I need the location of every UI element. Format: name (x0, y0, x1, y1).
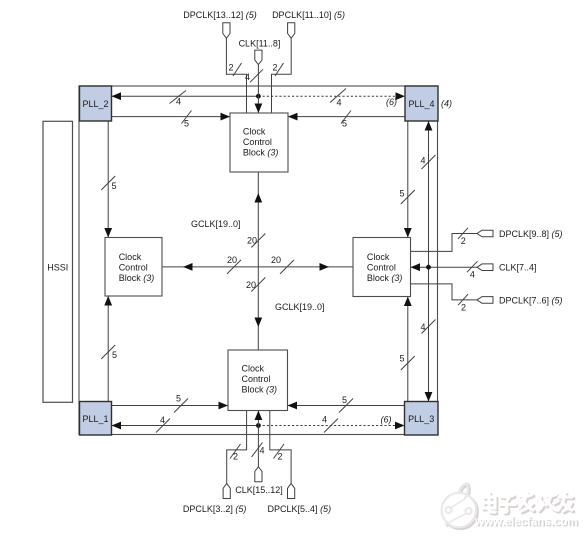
slash 4 (250, 69, 263, 82)
clock control block top (230, 113, 288, 172)
slash 2 (274, 444, 285, 459)
slash 4 bottom-dotted (324, 419, 338, 433)
watermark text elecfans chinese (483, 493, 574, 514)
svg-text:5: 5 (176, 394, 181, 404)
wire: PLL_1 to bottom CCB (112, 405, 229, 407)
svg-text:DPCLK[13..12] (5): DPCLK[13..12] (5) (183, 10, 257, 20)
wire: PLL_1 up to left CCB (107, 296, 109, 402)
svg-text:PLL_4: PLL_4 (408, 99, 434, 109)
svg-text:CLK[15..12]: CLK[15..12] (235, 485, 283, 495)
arrowhead into bottom CCB right (288, 402, 298, 410)
svg-text:5: 5 (112, 181, 117, 191)
svg-text:5: 5 (342, 119, 347, 129)
wire: PLL_4 down to right CCB (407, 121, 409, 238)
pin CLK[15..12] (235, 467, 283, 496)
svg-text:2: 2 (229, 63, 234, 73)
svg-text:Control: Control (367, 262, 396, 272)
PLL_1 block (80, 402, 112, 436)
pin DPCLK[7..6] (477, 295, 563, 305)
svg-text:Control: Control (243, 137, 272, 147)
arrowhead into top CCB left (221, 113, 231, 121)
clock control block bottom (228, 350, 288, 411)
arrowhead into PLL_4 bottom (425, 121, 433, 131)
svg-text:Block (3): Block (3) (367, 273, 403, 283)
svg-text:2: 2 (278, 452, 283, 462)
svg-text:4: 4 (160, 415, 165, 425)
svg-text:5: 5 (184, 119, 189, 129)
svg-text:4: 4 (336, 98, 341, 108)
wire: DPCLK[3..2] from bottom CCB (227, 411, 247, 484)
slash 4 top-left (170, 91, 187, 104)
wire: PLL_4 to top CCB (288, 116, 405, 118)
wire: CLK[11..8] into top CCB (257, 65, 259, 113)
slash 5 (401, 356, 415, 370)
arrowhead into bottom CCB (255, 411, 263, 421)
svg-text:DPCLK[3..2] (5): DPCLK[3..2] (5) (183, 504, 247, 514)
outer clock-network square (79, 86, 438, 435)
wire: top bus dotted half to PLL_4 (258, 95, 404, 97)
pin DPCLK[11..10] (272, 10, 345, 38)
svg-text:Control: Control (242, 374, 271, 384)
wire: PLL_2 down to left CCB (107, 121, 109, 238)
svg-text:2: 2 (461, 236, 466, 246)
svg-text:Block (3): Block (3) (243, 148, 279, 158)
svg-text:DPCLK[11..10] (5): DPCLK[11..10] (5) (272, 10, 345, 20)
slash 4 (422, 320, 436, 334)
watermark logo elecfans (442, 483, 478, 529)
arrowhead into left CCB bottom (104, 296, 112, 306)
slash 4 bottom-left (156, 419, 170, 433)
svg-text:20: 20 (271, 255, 281, 265)
svg-text:20: 20 (227, 255, 237, 265)
svg-text:4: 4 (260, 446, 265, 456)
svg-text:www.elecfans.com: www.elecfans.com (474, 516, 577, 528)
slash 2 (230, 444, 241, 459)
wire: DPCLK[11..10] to top CCB (272, 38, 292, 113)
svg-text:CLK[11..8]: CLK[11..8] (239, 38, 281, 48)
watermark text www.elecfans.com (474, 516, 579, 529)
node: junction CLK[7..4] with riser (426, 265, 431, 270)
arrowhead into top CCB (255, 104, 263, 114)
svg-text:Clock: Clock (242, 363, 265, 373)
arrowhead into PLL_3 top (425, 392, 433, 402)
svg-text:4: 4 (176, 97, 181, 107)
svg-text:(4): (4) (441, 99, 452, 109)
pin CLK[7..4] (477, 263, 537, 273)
svg-text:20: 20 (247, 236, 257, 246)
arrowhead GCLK up (254, 193, 262, 203)
wire: CLK[15..12] into bottom CCB (257, 411, 259, 467)
wire: CLK[7..4] riser to PLL_3 (428, 268, 430, 402)
wire: DPCLK[5..4] from bottom CCB (270, 411, 291, 484)
PLL_4 block (405, 86, 438, 121)
svg-text:(6): (6) (386, 97, 397, 107)
pin CLK[11..8] (239, 38, 281, 64)
svg-text:2: 2 (461, 302, 466, 312)
node: junction CLK[15..12] with bottom bus (256, 423, 261, 428)
wire: CLK[7..4] into right CCB (411, 266, 478, 268)
arrowhead into PLL_2 (112, 92, 122, 100)
slash 4 (422, 155, 436, 169)
slash 4 (467, 261, 478, 272)
slash 20 right (280, 260, 294, 274)
pin DPCLK[13..12] (183, 10, 257, 38)
arrowhead GCLK down (254, 318, 262, 328)
arrowhead into top CCB right (288, 113, 298, 121)
pin DPCLK[9..8] (477, 229, 563, 239)
svg-text:4: 4 (470, 269, 475, 279)
HSSI block (43, 121, 73, 402)
svg-text:(6): (6) (381, 415, 392, 425)
clock control block left (105, 238, 162, 297)
slash 5 (401, 190, 415, 204)
slash 20 upper (251, 234, 265, 248)
svg-text:DPCLK[9..8] (5): DPCLK[9..8] (5) (499, 229, 563, 239)
svg-text:GCLK[19..0]: GCLK[19..0] (275, 302, 325, 312)
svg-text:Control: Control (119, 262, 148, 272)
wire: bottom bus dotted half to PLL_3 (258, 425, 404, 427)
arrowhead into left CCB top (104, 228, 112, 238)
wire: DPCLK[9..8] to right CCB (411, 234, 478, 252)
wire: bottom bus PLL_1 solid half (112, 425, 259, 427)
svg-text:DPCLK[7..6] (5): DPCLK[7..6] (5) (499, 295, 563, 305)
slash 2 (275, 63, 284, 76)
svg-text:PLL_2: PLL_2 (82, 99, 108, 109)
svg-text:Clock: Clock (243, 126, 266, 136)
arrowhead into PLL_4 (396, 92, 406, 100)
svg-text:Clock: Clock (119, 252, 142, 262)
svg-text:GCLK[19..0]: GCLK[19..0] (191, 219, 241, 229)
wire: DPCLK[13..12] to top CCB (226, 38, 246, 113)
wire: top bus PLL_2 to PLL_4 solid half (112, 95, 259, 97)
slash 4 top-dotted (330, 89, 346, 103)
svg-text:4: 4 (420, 322, 425, 332)
wire: GCLK vertical bus (257, 172, 259, 350)
arrowhead into bottom CCB left (219, 402, 229, 410)
wire: PLL_3 up to right CCB (407, 297, 409, 402)
arrowhead GCLK right (320, 263, 330, 271)
svg-text:4: 4 (245, 72, 250, 82)
slash 5 (101, 345, 115, 359)
wire: DPCLK[7..6] to right CCB (411, 284, 478, 300)
slash 20 lower (251, 278, 265, 292)
clock control block right (353, 238, 411, 297)
wire: PLL_3 to bottom CCB (288, 405, 405, 407)
PLL_3 block (405, 402, 439, 436)
slash 5 (339, 399, 353, 413)
slash 5 (182, 111, 192, 124)
slash 4 (252, 443, 263, 458)
svg-text:5: 5 (399, 354, 404, 364)
node: junction CLK[11..8] with top bus (256, 94, 261, 99)
arrowhead into right CCB top (404, 228, 412, 238)
svg-text:Block (3): Block (3) (242, 385, 278, 395)
arrowhead into PLL_1 (112, 422, 122, 430)
svg-text:20: 20 (246, 280, 256, 290)
slash 2 (458, 294, 468, 305)
svg-text:CLK[7..4]: CLK[7..4] (499, 263, 537, 273)
wire: GCLK horizontal bus (162, 266, 353, 268)
PLL_2 block (80, 86, 112, 121)
svg-text:4: 4 (322, 415, 327, 425)
svg-text:PLL_1: PLL_1 (82, 414, 108, 424)
svg-text:DPCLK[5..4] (5): DPCLK[5..4] (5) (268, 504, 332, 514)
svg-text:5: 5 (342, 395, 347, 405)
svg-text:HSSI: HSSI (47, 263, 68, 273)
arrowhead into right CCB (411, 263, 421, 271)
arrowhead into PLL_3 (395, 422, 405, 430)
pin DPCLK[5..4] (268, 484, 332, 514)
svg-text:Clock: Clock (367, 252, 390, 262)
slash 20 left (227, 260, 241, 274)
svg-text:2: 2 (273, 63, 278, 73)
arrowhead GCLK left (183, 263, 193, 271)
slash 2 (233, 63, 242, 76)
wire: CLK[7..4] riser to PLL_4 (428, 121, 430, 268)
svg-text:5: 5 (112, 350, 117, 360)
pin DPCLK[3..2] (183, 484, 247, 514)
slash 5 (101, 176, 115, 190)
svg-text:2: 2 (233, 452, 238, 462)
slash 5 (174, 399, 188, 413)
arrowhead into right CCB bottom (404, 297, 412, 307)
slash 2 (458, 228, 468, 239)
svg-text:Block (3): Block (3) (119, 273, 155, 283)
slash 5 (341, 111, 351, 124)
wire: PLL_2 to top CCB (112, 116, 231, 118)
svg-text:4: 4 (420, 156, 425, 166)
svg-text:PLL_3: PLL_3 (408, 414, 434, 424)
svg-text:5: 5 (399, 189, 404, 199)
